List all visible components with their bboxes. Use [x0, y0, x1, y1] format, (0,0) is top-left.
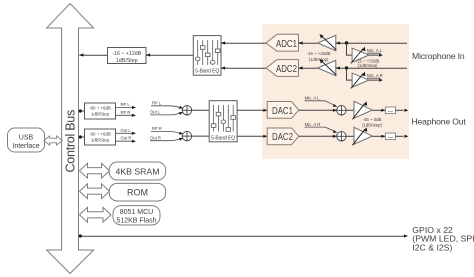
- svg-text:Out R: Out R: [121, 136, 132, 141]
- wire branch to sidetone amp L: [347, 43, 353, 55]
- svg-text:ROM: ROM: [127, 188, 148, 198]
- wire branch to sidetone amp R: [347, 68, 353, 80]
- svg-text:RP R: RP R: [121, 110, 131, 115]
- headphone amp L: [352, 101, 372, 119]
- svg-text:Out L: Out L: [150, 110, 161, 115]
- 5-band EQ block (record path): [193, 36, 221, 76]
- 4KB SRAM box: [109, 162, 166, 180]
- svg-text:Mic. A L: Mic. A L: [305, 96, 321, 101]
- wire P2 out Out R: [116, 140, 133, 142]
- svg-text:Out L: Out L: [121, 128, 132, 133]
- svg-text:Microphone In: Microphone In: [412, 51, 465, 61]
- arrowhead GPIO out: [404, 234, 408, 237]
- playback volume box P1: [85, 103, 116, 119]
- wire sum R to EQ2: [191, 135, 209, 137]
- arrowhead sidetone R out: [379, 79, 383, 82]
- DAC2 block: [267, 128, 299, 145]
- wire mic line R into amp: [336, 67, 407, 69]
- wire sidetone R out: [369, 79, 379, 81]
- arrowhead into record-volume box: [146, 53, 150, 56]
- svg-text:(1dB/step): (1dB/step): [358, 63, 378, 68]
- junction mic L: [345, 41, 348, 44]
- net wire Out R into sum R: [150, 139, 180, 141]
- svg-text:-60 ~ +6dB: -60 ~ +6dB: [89, 131, 111, 136]
- net wire Mic A R into sum4: [305, 127, 334, 131]
- wire sum4 to headphone amp R: [346, 135, 354, 137]
- arrowhead P2 out Out L: [132, 132, 136, 135]
- headphone amp R: [352, 127, 372, 145]
- wire amp L to driver box L: [372, 109, 385, 111]
- junction bus GPIO: [79, 234, 82, 237]
- svg-text:1dB/Step: 1dB/Step: [91, 111, 110, 116]
- sidetone mic amp L: [351, 47, 369, 64]
- arrowhead into driver box L: [381, 109, 385, 112]
- svg-text:Interface: Interface: [12, 143, 39, 150]
- DAC1 block: [267, 102, 299, 119]
- ADC1 block: [266, 34, 299, 51]
- arrowhead RP R into sum R: [179, 132, 184, 135]
- svg-text:ADC1: ADC1: [276, 38, 297, 49]
- svg-text:DAC1: DAC1: [272, 105, 293, 116]
- svg-text:512KB Flash: 512KB Flash: [116, 217, 156, 224]
- arrowhead into DAC1: [263, 109, 267, 112]
- svg-text:-45 ~ 0dB: -45 ~ 0dB: [363, 117, 382, 122]
- arrowhead RP L into sum L: [179, 106, 184, 109]
- junction bus playback 2: [79, 135, 82, 138]
- GPIO wire: [79, 235, 404, 237]
- wire sidetone L out: [369, 54, 379, 56]
- svg-text:5-Band EQ: 5-Band EQ: [211, 136, 235, 142]
- arrowhead headphone out R: [404, 135, 408, 138]
- wire EQ2 to DAC1: [237, 109, 267, 111]
- ROM box: [109, 183, 166, 201]
- svg-text:-60 ~ +6dB: -60 ~ +6dB: [89, 105, 111, 110]
- wire ADC2 to EQ1: [221, 67, 266, 69]
- wire ADC1 to EQ1: [221, 42, 266, 44]
- wire EQ1 to record-volume box: [146, 54, 193, 56]
- svg-text:Mic. A R: Mic. A R: [305, 122, 321, 127]
- svg-text:4KB SRAM: 4KB SRAM: [116, 166, 160, 176]
- wire amp R to driver box R: [372, 135, 385, 137]
- net underline Mic A R source: [367, 78, 380, 80]
- control bus arrow: [47, 4, 94, 274]
- 8051 MCU box: [113, 206, 160, 225]
- svg-text:-16 ~ +12dB: -16 ~ +12dB: [112, 51, 142, 57]
- wire EQ2 to DAC2: [237, 135, 267, 137]
- arrowhead into sum3: [333, 109, 337, 112]
- headphone driver box L: [385, 107, 395, 114]
- analog section background panel: [262, 24, 409, 159]
- arrowhead headphone out L: [404, 109, 408, 112]
- svg-text:Mic. A R: Mic. A R: [367, 73, 383, 78]
- arrowhead into amp R base: [336, 66, 340, 69]
- svg-text:Control Bus: Control Bus: [63, 110, 77, 173]
- wire DAC1 to sum3: [299, 109, 337, 111]
- net wire Mic A L into sum3: [305, 101, 334, 105]
- svg-text:ADC2: ADC2: [276, 63, 297, 74]
- svg-text:RP L: RP L: [121, 102, 131, 107]
- bus-to-SRAM double arrow: [80, 163, 110, 178]
- playback volume box P2: [85, 129, 116, 145]
- junction bus playback 1: [79, 109, 82, 112]
- net wire Out L into sum L: [150, 113, 180, 115]
- svg-text:DAC2: DAC2: [272, 131, 293, 142]
- bus-to-MCU double arrow: [80, 207, 112, 222]
- svg-text:RP L: RP L: [152, 101, 162, 106]
- svg-text:Heaphone Out: Heaphone Out: [412, 116, 467, 126]
- wire driver L to output: [396, 109, 404, 111]
- svg-text:8051 MCU: 8051 MCU: [120, 209, 153, 216]
- arrowhead sidetone L out: [379, 54, 383, 57]
- sidetone mic amp R: [351, 72, 369, 89]
- arrowhead into driver box R: [381, 135, 385, 138]
- svg-text:1dB/Step: 1dB/Step: [116, 58, 138, 64]
- svg-text:Mic. A L: Mic. A L: [367, 48, 383, 53]
- 5-band EQ block (playback path): [209, 101, 237, 142]
- wire bus to record-volume box: [79, 54, 107, 56]
- arrowhead P1 out RP L: [132, 106, 136, 109]
- wire bus to playback-volume box 1: [79, 110, 84, 112]
- arrowhead into ADC2: [299, 66, 303, 69]
- arrowhead into amp L base: [336, 41, 340, 44]
- svg-text:(1dB/step): (1dB/step): [362, 123, 382, 128]
- wire mic amp L1 to ADC1: [299, 42, 318, 44]
- wire driver R to output: [396, 135, 404, 137]
- net underline Mic A L source: [367, 53, 380, 55]
- wire P1 out RP L: [116, 107, 133, 109]
- arrowhead Mic A L into sum3: [333, 104, 338, 107]
- svg-text:(1dB/step): (1dB/step): [309, 57, 329, 62]
- variable gain amp (ADC2 path): [318, 59, 337, 76]
- net wire RP L into sum L: [151, 106, 180, 108]
- arrowhead P1 out RP R: [132, 114, 136, 117]
- arrowhead into DAC2: [263, 135, 267, 138]
- summing node L (output): [336, 105, 347, 116]
- arrowhead into EQ1 bottom input: [221, 66, 225, 69]
- wire bus to playback-volume box 2: [79, 136, 84, 138]
- variable gain amp (ADC1 path): [318, 34, 337, 51]
- USB interface box: [8, 128, 45, 152]
- wire sum3 to headphone amp L: [346, 109, 354, 111]
- arrowhead into ADC1: [299, 41, 303, 44]
- record volume box R1: [108, 48, 147, 64]
- summing node L (playback): [182, 105, 193, 116]
- USB-to-bus double arrow: [44, 136, 63, 145]
- arrowhead Mic A R into sum4: [333, 130, 338, 133]
- arrowhead Out L into sum L: [179, 112, 184, 115]
- arrowhead P2 out Out R: [132, 140, 136, 143]
- svg-text:USB: USB: [19, 134, 34, 141]
- wire P1 out RP R: [116, 114, 133, 116]
- svg-text:-15 ~ +33dB: -15 ~ +33dB: [307, 51, 331, 56]
- wire P2 out Out L: [116, 132, 133, 134]
- wire mic amp L2 to ADC2: [299, 67, 318, 69]
- wire DAC2 to sum4: [299, 135, 337, 137]
- svg-text:5-Band EQ: 5-Band EQ: [195, 69, 219, 75]
- summing node R (playback): [182, 131, 193, 142]
- svg-text:Out R: Out R: [150, 135, 161, 140]
- arrowhead into bus (record path): [79, 53, 83, 56]
- wire mic line L into amp: [336, 42, 407, 44]
- bus-to-ROM double arrow: [80, 184, 110, 199]
- svg-text:I2C & I2S): I2C & I2S): [412, 243, 452, 253]
- junction mic R: [345, 66, 348, 69]
- wire sum L to EQ2: [191, 109, 209, 111]
- arrowhead into EQ1 top input: [221, 41, 225, 44]
- svg-text:RP R: RP R: [152, 126, 162, 131]
- summing node R (output): [336, 131, 347, 142]
- svg-text:1dB/Step: 1dB/Step: [91, 137, 110, 142]
- arrowhead Out R into sum R: [179, 138, 184, 141]
- headphone driver box R: [385, 133, 395, 140]
- ADC2 block: [266, 60, 299, 77]
- arrowhead into sum4: [333, 135, 337, 138]
- net wire RP R into sum R: [151, 132, 180, 134]
